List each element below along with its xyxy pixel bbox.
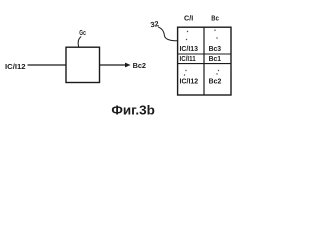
svg-text:32: 32: [150, 19, 160, 29]
table 32 column divider: [203, 27, 205, 95]
table 32 outer frame: [178, 27, 231, 95]
block Gc (mapping unit box): [66, 47, 100, 82]
svg-text:C/I: C/I: [184, 13, 193, 22]
svg-text:Фиг.3b: Фиг.3b: [111, 102, 154, 117]
svg-text:IC/I12: IC/I12: [5, 62, 26, 71]
ellipsis dots column C/I upper: [186, 31, 188, 40]
wire input to block Gc: [28, 64, 67, 66]
svg-text:Bc2: Bc2: [209, 79, 222, 86]
wire output from block Gc: [100, 64, 127, 66]
svg-text:Gc: Gc: [79, 28, 86, 37]
svg-text:Bc: Bc: [211, 13, 219, 22]
ellipsis dots column Bc lower: [216, 70, 219, 75]
ellipsis dots column C/I lower: [184, 70, 187, 76]
svg-text:IC/I13: IC/I13: [180, 46, 199, 53]
ellipsis dots column Bc upper: [214, 30, 217, 39]
leader line from label 32 to table: [158, 27, 178, 41]
leader line from label Gc to block: [78, 37, 81, 47]
svg-text:Bc3: Bc3: [209, 46, 222, 53]
svg-text:Bc1: Bc1: [209, 56, 222, 63]
svg-text:IC/I11: IC/I11: [180, 56, 196, 63]
svg-text:IC/I12: IC/I12: [180, 79, 199, 86]
table 32 row divider 1: [178, 53, 231, 55]
arrowhead to node Bc2: [125, 63, 131, 68]
svg-text:Bc2: Bc2: [133, 61, 146, 70]
table 32 row divider 2: [178, 63, 231, 65]
